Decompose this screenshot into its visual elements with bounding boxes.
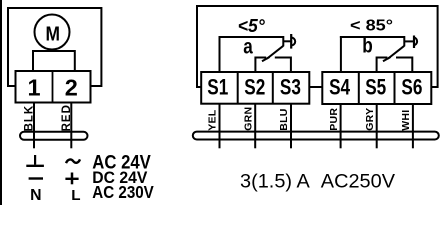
svg-text:S3: S3 (280, 74, 301, 99)
wire GRY (376, 104, 378, 148)
wire BLU (290, 104, 292, 149)
svg-text:S4: S4 (329, 74, 351, 99)
switch housing (right) (197, 6, 438, 87)
svg-text:3(1.5) A AC250V: 3(1.5) A AC250V (240, 171, 395, 192)
page left border line (0, 0, 2, 205)
switch b corner drop (403, 36, 405, 46)
switch b top wire (340, 36, 404, 38)
terminal block S4-S6 (322, 72, 431, 104)
plus symbol (65, 178, 78, 180)
switch a riser from S1 (219, 36, 221, 73)
switch a contact platform left (255, 58, 266, 74)
svg-text:1: 1 (27, 75, 40, 101)
motor pedestal (33, 51, 75, 73)
switch b contact platform right (396, 58, 412, 74)
svg-text:a: a (243, 36, 253, 59)
cable sleeve left (20, 132, 88, 140)
switch a contact platform right (275, 58, 291, 74)
svg-text:L: L (71, 187, 80, 204)
actuator housing (left) (8, 8, 101, 86)
svg-text:PUR: PUR (328, 108, 340, 131)
switch b actuator bump (414, 38, 417, 46)
svg-text:GRY: GRY (364, 108, 376, 131)
svg-text:S1: S1 (207, 74, 228, 99)
switch a corner drop (282, 36, 284, 46)
switch b contact platform left (377, 58, 388, 74)
switch b actuator bar (413, 36, 415, 49)
switch a actuator bar (290, 34, 292, 49)
svg-text:b: b (362, 35, 373, 58)
cable sleeve right (193, 132, 439, 140)
switch b riser from S4 (340, 36, 342, 73)
svg-text:N: N (30, 187, 41, 204)
svg-text:BLU: BLU (278, 108, 290, 130)
switch a actuator stub (283, 40, 290, 42)
wire BLK (33, 103, 35, 149)
wire WHI (412, 104, 414, 148)
svg-text:YEL: YEL (207, 109, 219, 131)
wire RED (70, 103, 72, 149)
svg-text:M: M (45, 23, 60, 45)
svg-text:2: 2 (65, 75, 78, 101)
svg-text:RED: RED (61, 104, 73, 131)
switch b blade (388, 46, 404, 59)
ac tilde symbol (66, 159, 80, 163)
svg-text:< 85°: < 85° (350, 18, 393, 35)
switch a blade foot (262, 57, 270, 61)
svg-text:BLK: BLK (23, 105, 35, 132)
ground symbol (34, 155, 36, 165)
switch a actuator bump (291, 38, 295, 46)
dc dash symbol (29, 177, 43, 179)
switch a top wire (219, 36, 284, 38)
wire PUR (340, 104, 342, 148)
svg-text:GRN: GRN (242, 107, 254, 131)
switch a blade (267, 46, 283, 59)
switch b actuator stub (404, 40, 413, 42)
terminal block S1-S3 (201, 72, 309, 104)
motor M circle (35, 15, 70, 50)
wire YEL (219, 104, 221, 149)
svg-text:WHI: WHI (400, 109, 412, 130)
svg-text:S6: S6 (401, 74, 422, 99)
svg-text:<5°: <5° (238, 15, 266, 36)
terminal block 1-2 (16, 71, 91, 103)
terminal divider (52, 71, 54, 103)
wire GRN (254, 104, 256, 149)
switch b blade foot (383, 57, 391, 61)
svg-text:S2: S2 (244, 74, 265, 99)
svg-text:AC 230V: AC 230V (92, 182, 154, 202)
svg-text:S5: S5 (365, 74, 386, 99)
